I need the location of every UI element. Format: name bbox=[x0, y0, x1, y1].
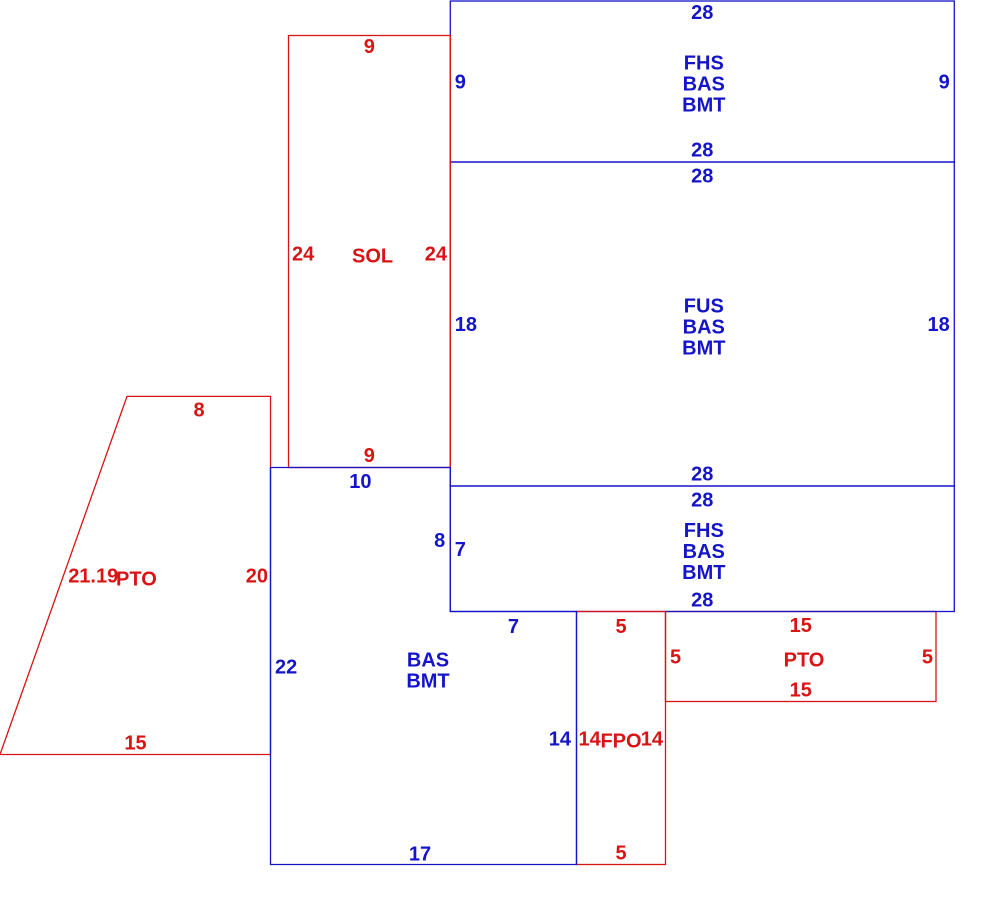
svg-text:9: 9 bbox=[939, 72, 950, 94]
svg-text:14: 14 bbox=[579, 729, 602, 751]
svg-text:15: 15 bbox=[124, 733, 146, 755]
svg-text:24: 24 bbox=[292, 244, 315, 266]
svg-text:28: 28 bbox=[691, 490, 713, 512]
svg-text:8: 8 bbox=[193, 399, 204, 421]
svg-text:18: 18 bbox=[928, 314, 950, 336]
svg-text:BMT: BMT bbox=[406, 671, 449, 693]
svg-text:28: 28 bbox=[691, 2, 713, 24]
svg-text:28: 28 bbox=[691, 463, 713, 485]
svg-text:8: 8 bbox=[434, 530, 445, 552]
svg-text:7: 7 bbox=[455, 539, 466, 561]
svg-text:FHS: FHS bbox=[684, 53, 724, 75]
svg-text:20: 20 bbox=[246, 566, 268, 588]
svg-text:28: 28 bbox=[691, 589, 713, 611]
svg-text:24: 24 bbox=[425, 244, 448, 266]
svg-text:18: 18 bbox=[455, 314, 477, 336]
svg-text:14: 14 bbox=[641, 729, 664, 751]
svg-text:5: 5 bbox=[670, 647, 681, 669]
svg-text:BAS: BAS bbox=[683, 541, 725, 563]
svg-text:PTO: PTO bbox=[784, 650, 825, 672]
svg-text:22: 22 bbox=[275, 657, 297, 679]
svg-text:28: 28 bbox=[691, 140, 713, 162]
svg-text:7: 7 bbox=[508, 616, 519, 638]
svg-text:15: 15 bbox=[790, 680, 812, 702]
svg-text:28: 28 bbox=[691, 165, 713, 187]
svg-text:BAS: BAS bbox=[683, 316, 725, 338]
svg-text:BAS: BAS bbox=[683, 74, 725, 96]
svg-text:SOL: SOL bbox=[352, 246, 393, 268]
svg-text:10: 10 bbox=[349, 471, 371, 493]
svg-text:PTO: PTO bbox=[116, 569, 157, 591]
svg-text:17: 17 bbox=[409, 844, 431, 866]
svg-text:FHS: FHS bbox=[684, 520, 724, 542]
svg-text:9: 9 bbox=[455, 72, 466, 94]
svg-text:9: 9 bbox=[364, 36, 375, 58]
svg-text:15: 15 bbox=[790, 615, 812, 637]
svg-text:21.19: 21.19 bbox=[68, 566, 118, 588]
svg-text:FUS: FUS bbox=[684, 295, 724, 317]
svg-text:BMT: BMT bbox=[682, 337, 725, 359]
svg-text:FPO: FPO bbox=[600, 731, 641, 753]
svg-text:9: 9 bbox=[364, 445, 375, 467]
svg-text:5: 5 bbox=[615, 616, 626, 638]
svg-text:BMT: BMT bbox=[682, 95, 725, 117]
svg-text:BAS: BAS bbox=[407, 650, 449, 672]
svg-text:14: 14 bbox=[549, 729, 572, 751]
svg-text:5: 5 bbox=[922, 647, 933, 669]
svg-text:5: 5 bbox=[615, 843, 626, 865]
svg-text:BMT: BMT bbox=[682, 562, 725, 584]
